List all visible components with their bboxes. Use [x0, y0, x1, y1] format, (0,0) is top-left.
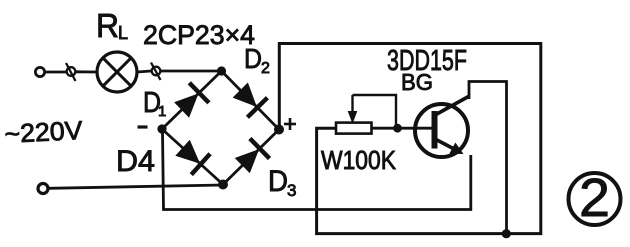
bridge edge bottom-right: [223, 130, 279, 185]
wire (wiper loop to junction): [353, 95, 397, 125]
diode D2: [234, 83, 268, 117]
svg-text:2CP23×4: 2CP23×4: [143, 20, 255, 50]
minus sign: [138, 125, 148, 128]
svg-text:D4: D4: [116, 145, 155, 178]
figure number circle 2: [569, 168, 621, 228]
pot wiper arrow: [348, 95, 356, 122]
wire (plus node up, top rail, right side, bottom rail, up to pot left): [279, 44, 541, 234]
label D1: [143, 87, 166, 120]
wire (collector up, over, down to bottom rail): [469, 82, 507, 234]
junction node (collector to bottom rail): [502, 229, 511, 238]
wire (minus node down, right, up to emitter): [163, 131, 471, 210]
diode D1: [175, 83, 209, 117]
svg-text:2: 2: [579, 168, 610, 228]
label D3: [268, 165, 296, 200]
svg-text:1: 1: [158, 103, 166, 120]
node right (plus): [274, 125, 284, 135]
svg-text:D: D: [244, 43, 262, 74]
svg-text:BG: BG: [401, 69, 433, 95]
wire: [137, 71, 151, 72]
wire: [161, 70, 222, 73]
transistor emitter stroke with arrow: [436, 140, 463, 154]
svg-text:~220V: ~220V: [4, 115, 84, 149]
bridge edge top-left: [162, 71, 222, 129]
AC input terminal top-left: [35, 67, 44, 76]
diode D4: [176, 141, 210, 175]
plus sign: [284, 118, 296, 130]
node top (bridge AC): [217, 66, 226, 75]
svg-text:L: L: [118, 23, 128, 43]
AC input terminal bottom-left: [38, 184, 48, 194]
svg-text:R: R: [96, 7, 119, 44]
svg-text:D: D: [268, 165, 288, 198]
wire (bottom AC to bridge): [49, 185, 224, 188]
transistor BG circle: [415, 104, 468, 157]
diode D3: [236, 139, 270, 173]
svg-text:2: 2: [261, 60, 270, 77]
junction node (wiper to base): [393, 124, 402, 133]
bridge edge bottom-left: [162, 129, 223, 185]
node left (minus): [157, 124, 166, 133]
connector symbol (slashed circle): [66, 63, 76, 81]
svg-text:W100K: W100K: [321, 145, 397, 175]
label D2: [244, 43, 270, 77]
potentiometer W body: [336, 123, 372, 134]
svg-text:3: 3: [287, 181, 296, 200]
bridge edge top-right: [222, 71, 280, 130]
node bottom (bridge AC): [218, 180, 228, 190]
lamp RL: [97, 52, 137, 92]
connector symbol (slashed circle): [151, 63, 161, 81]
label RL: [96, 7, 128, 44]
wire: [45, 71, 67, 74]
wire (pot right to base): [372, 127, 434, 130]
wire: [76, 70, 98, 73]
transistor base bar: [432, 111, 438, 149]
transistor collector stroke: [436, 97, 469, 115]
